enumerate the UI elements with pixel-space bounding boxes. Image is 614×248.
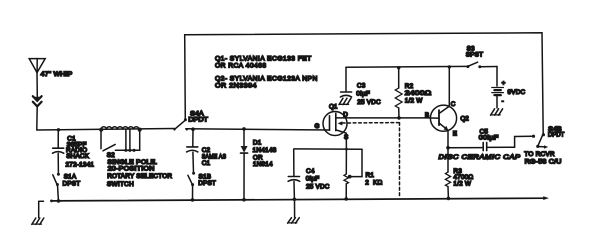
svg-text:B: B — [425, 112, 429, 119]
svg-text:0IμF: 0IμF — [306, 175, 320, 182]
svg-text:ROTARY SELECTOR: ROTARY SELECTOR — [107, 173, 172, 180]
switch S3 — [466, 62, 497, 68]
resistor R3 — [445, 148, 450, 199]
capacitor C4 — [288, 150, 300, 200]
label R1 — [365, 172, 382, 186]
wire Q1 drain to Q2 base — [346, 117, 429, 119]
label S4B — [548, 126, 565, 139]
label C2 — [202, 147, 227, 167]
svg-text:0IμF: 0IμF — [356, 91, 370, 98]
svg-text:SHACK: SHACK — [66, 153, 90, 160]
svg-text:1/2 W: 1/2 W — [405, 97, 423, 104]
svg-text:47" WHIP: 47" WHIP — [41, 71, 73, 78]
label S1B — [198, 174, 216, 188]
svg-text:C1: C1 — [202, 160, 211, 167]
svg-text:TO RCVR: TO RCVR — [524, 151, 555, 158]
svg-text:1/2 W: 1/2 W — [453, 181, 471, 188]
node rail R2 — [397, 66, 400, 69]
switch S2 blade — [103, 144, 115, 150]
node coil taps — [124, 149, 135, 152]
antenna — [29, 59, 45, 130]
wire source / C4 / R1 loop — [294, 149, 362, 179]
svg-text:DPST: DPST — [198, 180, 216, 187]
node R2 bottom junction — [397, 116, 401, 120]
svg-text:00IμF: 00IμF — [479, 134, 499, 141]
node coil left — [99, 128, 103, 132]
ground under C3 — [339, 98, 351, 104]
svg-text:Q1- SYLVANIA ECG133 FET: Q1- SYLVANIA ECG133 FET — [215, 55, 312, 62]
svg-text:1N4148: 1N4148 — [253, 147, 277, 154]
svg-text:-: - — [502, 98, 504, 105]
svg-text:OR 2N3394: OR 2N3394 — [215, 83, 257, 90]
svg-text:2400Ω: 2400Ω — [405, 90, 432, 97]
svg-text:C: C — [451, 101, 456, 108]
svg-text:2 KΩ: 2 KΩ — [365, 180, 382, 187]
svg-text:OR RCA 40468: OR RCA 40468 — [215, 62, 267, 69]
node coil right — [138, 128, 142, 132]
svg-text:SWITCH: SWITCH — [107, 181, 134, 188]
node D1 top junction — [242, 127, 246, 131]
node C1 top junction — [57, 128, 60, 131]
bus junction dots — [57, 197, 451, 203]
svg-text:DPDT: DPDT — [188, 117, 208, 124]
capacitor C5 — [448, 136, 532, 150]
inductor L1 (S2 tapped coil) — [101, 127, 140, 151]
label Q1/Q2 device types — [215, 55, 318, 89]
ground under C4 — [288, 199, 300, 223]
label S3 — [466, 45, 484, 58]
svg-text:272-1341: 272-1341 — [66, 162, 95, 169]
svg-text:Q2: Q2 — [460, 116, 469, 123]
wire bypass (box: S4A up, across top, down to S4B) — [185, 33, 544, 133]
resistor R2 — [395, 67, 402, 118]
node C2 top junction — [191, 127, 195, 131]
ground under battery — [491, 109, 503, 115]
label C3 — [356, 82, 381, 105]
wire S4A to Q1 gate — [186, 129, 330, 130]
label S2 — [107, 152, 173, 188]
svg-text:S: S — [344, 134, 348, 141]
svg-text:25 VDC: 25 VDC — [306, 184, 330, 191]
transistor Q2 (NPN) — [429, 67, 456, 148]
switch S1B — [188, 172, 195, 200]
svg-text:DPDT: DPDT — [548, 132, 565, 139]
switch S4B — [532, 133, 548, 149]
label Q1 pins — [315, 104, 349, 141]
label C4 — [306, 168, 330, 191]
diode D1 — [241, 129, 248, 200]
dashed substrate/shield line — [342, 123, 399, 197]
wire antenna to S4A pivot — [37, 129, 175, 131]
transistor Q1 (MOSFET) — [323, 112, 347, 150]
label TO RCVR — [524, 151, 562, 166]
resistor R1 — [344, 149, 349, 199]
battery 9VDC — [492, 67, 506, 108]
switch S1A — [53, 173, 60, 201]
supply rail wire — [346, 65, 468, 68]
capacitor C2 — [187, 129, 198, 173]
svg-text:9VDC: 9VDC — [508, 89, 526, 96]
svg-text:RG-58 C/U: RG-58 C/U — [525, 159, 562, 166]
svg-text:1N914: 1N914 — [253, 161, 273, 168]
capacitor C1 — [53, 130, 64, 174]
label S1A — [63, 174, 81, 188]
svg-text:G: G — [315, 123, 320, 130]
node emitter / C5 junction — [446, 146, 450, 150]
svg-text:DPST: DPST — [63, 180, 81, 187]
node rail Q2 collector — [448, 65, 451, 68]
capacitor C3 — [340, 67, 351, 97]
svg-text:Q2- SYLVANIA ECG123A NPN: Q2- SYLVANIA ECG123A NPN — [215, 75, 318, 82]
svg-text:C4: C4 — [306, 168, 315, 175]
chassis ground bottom-left — [32, 201, 44, 224]
label C1 value — [66, 135, 95, 168]
label D1 — [253, 140, 277, 168]
svg-text:SPST: SPST — [466, 51, 484, 58]
svg-text:DISC CERAMIC CAP: DISC CERAMIC CAP — [439, 154, 521, 161]
label S4A — [188, 110, 208, 123]
svg-text:+: + — [502, 80, 506, 87]
node source junction — [345, 148, 348, 151]
label R3 — [453, 168, 473, 188]
svg-text:25 VDC: 25 VDC — [357, 99, 381, 106]
svg-text:E: E — [453, 131, 457, 138]
label R2 — [405, 83, 432, 105]
svg-text:D1: D1 — [253, 140, 262, 147]
svg-text:R2: R2 — [405, 83, 414, 90]
svg-text:R1: R1 — [366, 172, 375, 179]
svg-text:20-POSITION: 20-POSITION — [108, 166, 155, 173]
svg-text:C3: C3 — [357, 82, 366, 89]
ground bus wire — [50, 196, 549, 202]
label C5 — [479, 129, 499, 142]
svg-text:Q1: Q1 — [329, 104, 338, 111]
switch S4A — [173, 118, 188, 130]
label Q2 pins — [425, 101, 469, 138]
